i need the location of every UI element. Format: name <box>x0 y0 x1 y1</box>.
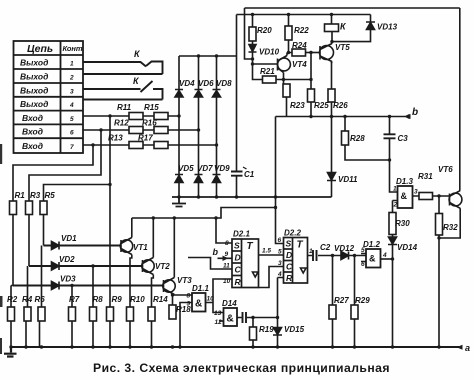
svg-text:D1.2: D1.2 <box>363 240 380 249</box>
svg-text:1: 1 <box>70 61 74 68</box>
svg-text:R11: R11 <box>117 103 132 112</box>
svg-text:R2: R2 <box>7 295 18 304</box>
svg-text:R24: R24 <box>292 41 307 50</box>
svg-text:К: К <box>340 22 347 32</box>
svg-text:VD11: VD11 <box>338 175 358 184</box>
svg-text:VD1: VD1 <box>61 234 77 243</box>
svg-text:7: 7 <box>70 144 74 151</box>
svg-text:VD9: VD9 <box>214 164 230 173</box>
svg-text:R19: R19 <box>259 325 274 334</box>
svg-text:VD7: VD7 <box>197 164 213 173</box>
svg-text:R20: R20 <box>257 26 272 35</box>
svg-text:R25: R25 <box>314 101 329 110</box>
svg-text:VD12: VD12 <box>334 244 355 253</box>
svg-text:R15: R15 <box>144 103 159 112</box>
svg-text:VD13: VD13 <box>377 23 398 32</box>
svg-text:C3: C3 <box>398 134 409 143</box>
svg-text:R32: R32 <box>443 223 458 232</box>
svg-text:VD10: VD10 <box>259 48 280 57</box>
svg-text:VT4: VT4 <box>292 60 307 69</box>
svg-text:b: b <box>213 247 219 257</box>
svg-text:C2: C2 <box>320 243 331 252</box>
svg-text:1: 1 <box>393 186 397 193</box>
svg-text:VD2: VD2 <box>59 255 75 264</box>
svg-text:3: 3 <box>70 88 74 95</box>
svg-text:R23: R23 <box>290 101 305 110</box>
svg-text:VT5: VT5 <box>335 43 350 52</box>
svg-text:R10: R10 <box>130 295 145 304</box>
svg-text:4: 4 <box>382 252 387 259</box>
svg-text:R21: R21 <box>260 67 275 76</box>
svg-text:C1: C1 <box>244 170 255 179</box>
svg-text:5: 5 <box>361 247 365 254</box>
svg-text:2: 2 <box>69 75 74 82</box>
svg-text:R: R <box>286 273 293 283</box>
svg-text:Рис. 3. Схема электрическая пр: Рис. 3. Схема электрическая принципиальн… <box>93 361 390 375</box>
svg-text:VD4: VD4 <box>179 79 195 88</box>
svg-text:Выход: Выход <box>20 72 48 82</box>
svg-text:1: 1 <box>309 248 313 255</box>
svg-text:12: 12 <box>215 319 223 326</box>
svg-text:R4: R4 <box>22 295 33 304</box>
svg-text:3: 3 <box>278 260 282 267</box>
svg-text:6: 6 <box>70 130 74 137</box>
svg-text:D2.2: D2.2 <box>284 229 301 238</box>
svg-text:Конт: Конт <box>63 44 83 53</box>
svg-text:C: C <box>286 262 293 272</box>
svg-text:Выход: Выход <box>20 99 48 109</box>
svg-text:D1.1: D1.1 <box>192 284 209 293</box>
svg-text:R3: R3 <box>30 191 41 200</box>
svg-text:&: & <box>227 314 234 325</box>
svg-text:2: 2 <box>393 202 398 209</box>
svg-text:11: 11 <box>223 263 230 270</box>
svg-text:VD14: VD14 <box>397 243 418 252</box>
svg-text:&: & <box>195 299 202 310</box>
svg-text:5: 5 <box>278 249 282 256</box>
svg-text:Вход: Вход <box>22 141 43 151</box>
svg-text:Вход: Вход <box>22 127 43 137</box>
svg-text:T: T <box>297 240 304 251</box>
svg-text:9: 9 <box>225 251 229 258</box>
svg-text:VT2: VT2 <box>155 262 170 271</box>
svg-text:R22: R22 <box>294 26 309 35</box>
svg-text:4: 4 <box>69 102 74 109</box>
svg-text:13: 13 <box>214 310 222 317</box>
svg-text:Вход: Вход <box>22 113 43 123</box>
svg-text:D2.1: D2.1 <box>233 230 250 239</box>
svg-text:R9: R9 <box>112 295 123 304</box>
svg-text:R31: R31 <box>418 172 433 181</box>
svg-text:D: D <box>235 253 241 263</box>
svg-text:К: К <box>133 76 140 86</box>
svg-text:3: 3 <box>414 189 418 196</box>
svg-text:S: S <box>234 241 240 251</box>
svg-text:R12: R12 <box>114 119 129 128</box>
svg-text:VD5: VD5 <box>178 164 194 173</box>
svg-text:a: a <box>465 343 470 353</box>
svg-text:R8: R8 <box>93 295 104 304</box>
svg-text:R6: R6 <box>35 295 46 304</box>
svg-text:R27: R27 <box>334 296 349 305</box>
svg-text:К: К <box>134 49 141 59</box>
svg-text:VT6: VT6 <box>438 165 453 174</box>
svg-text:VD6: VD6 <box>198 79 214 88</box>
svg-text:1.5: 1.5 <box>262 248 271 255</box>
svg-text:R17: R17 <box>138 134 153 143</box>
svg-text:b: b <box>412 107 418 118</box>
svg-text:8: 8 <box>187 293 191 300</box>
svg-text:R16: R16 <box>142 119 157 128</box>
svg-text:S: S <box>286 239 292 249</box>
svg-text:8: 8 <box>225 240 229 247</box>
svg-text:Выход: Выход <box>20 58 48 68</box>
svg-text:9: 9 <box>187 301 191 308</box>
svg-text:4: 4 <box>277 271 282 278</box>
svg-text:R29: R29 <box>355 296 370 305</box>
svg-text:R30: R30 <box>395 219 410 228</box>
svg-text:R28: R28 <box>350 134 365 143</box>
svg-text:R14: R14 <box>153 295 168 304</box>
svg-text:Цепь: Цепь <box>27 43 53 55</box>
svg-text:&: & <box>401 191 408 201</box>
svg-text:VT1: VT1 <box>133 243 148 252</box>
svg-text:C: C <box>235 265 242 275</box>
svg-text:&: & <box>369 254 376 264</box>
svg-text:6: 6 <box>361 261 365 268</box>
svg-text:VT3: VT3 <box>177 276 192 285</box>
svg-text:5: 5 <box>70 116 74 123</box>
svg-text:R7: R7 <box>69 295 80 304</box>
svg-text:10: 10 <box>207 296 215 303</box>
svg-text:D1.3: D1.3 <box>396 177 413 186</box>
svg-text:VD3: VD3 <box>60 275 76 284</box>
svg-text:10: 10 <box>223 278 231 285</box>
svg-text:VD15: VD15 <box>284 325 305 334</box>
svg-text:R5: R5 <box>45 191 56 200</box>
svg-text:D14: D14 <box>222 299 237 308</box>
svg-text:6: 6 <box>278 237 282 244</box>
svg-text:D: D <box>286 250 292 260</box>
svg-text:VD8: VD8 <box>216 79 232 88</box>
svg-text:R26: R26 <box>333 101 348 110</box>
svg-text:Выход: Выход <box>20 85 48 95</box>
svg-text:R1: R1 <box>15 191 26 200</box>
svg-text:R13: R13 <box>108 134 123 143</box>
svg-text:T: T <box>247 241 254 252</box>
svg-text:R: R <box>235 277 242 287</box>
